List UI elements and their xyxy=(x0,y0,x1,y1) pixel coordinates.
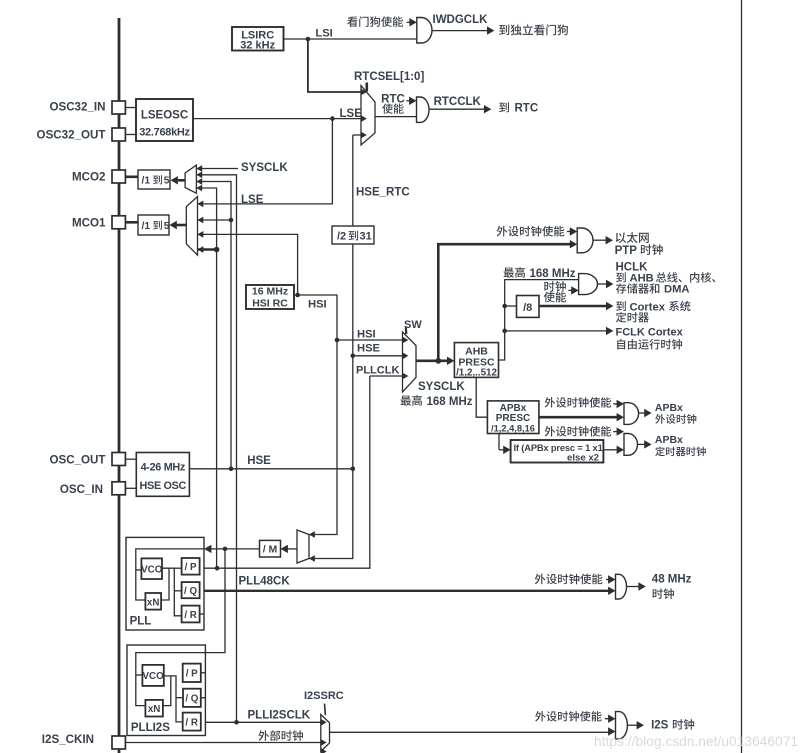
arrow APBx timer output xyxy=(638,443,646,445)
wire PLLI2S internal input xyxy=(136,653,206,706)
svg-text:Cortex: Cortex xyxy=(630,301,666,313)
mux I2SSRC xyxy=(321,715,330,752)
svg-text:I2SSRC: I2SSRC xyxy=(304,690,344,702)
label enable hclk xyxy=(544,292,566,303)
label peripheral clock enable I2S xyxy=(535,711,602,721)
wire HSE down to PLLSRC mux xyxy=(309,469,353,559)
arrow SW in PLLCLK xyxy=(403,373,409,380)
svg-text:PLLI2S: PLLI2S xyxy=(131,722,170,734)
node HSI junction at SW line xyxy=(335,338,340,343)
svg-text:LSEOSC: LSEOSC xyxy=(141,109,188,121)
arrow RTC enable xyxy=(406,100,410,102)
multiplier box PLLI2S xN xyxy=(145,700,163,717)
svg-text:/1,2,..512: /1,2,..512 xyxy=(456,368,497,379)
vco box PLL VCO xyxy=(141,558,162,579)
label to RTC xyxy=(499,102,509,112)
wire PLL internal VCO stub xyxy=(136,569,142,571)
multiplier box PLL xN xyxy=(145,593,161,610)
svg-text:RTC: RTC xyxy=(515,103,539,115)
label watchdog enable xyxy=(347,16,403,27)
and-gate IWDG enable xyxy=(417,18,432,44)
arrow HCLK enable xyxy=(568,289,572,291)
node LSI junction xyxy=(306,37,311,42)
node /M output junction xyxy=(223,547,228,552)
wire main vertical bus xyxy=(118,18,121,753)
pll outer box PLLI2S xyxy=(127,645,205,736)
wire LSI down to RTCSEL mux xyxy=(308,39,361,92)
svg-text:PLL: PLL xyxy=(130,616,152,628)
divider box PLL /P xyxy=(182,558,200,575)
wire PLLCLK into SW mux xyxy=(370,375,403,377)
node MCO1 HSE junction xyxy=(229,218,234,223)
svg-text:VCO: VCO xyxy=(141,565,163,576)
wire PLL internal feedback xyxy=(161,568,169,600)
svg-text:MCO1: MCO1 xyxy=(72,217,106,230)
svg-text:PLL48CK: PLL48CK xyxy=(239,576,291,588)
svg-text:xN: xN xyxy=(147,597,160,608)
svg-text:I2S_CKIN: I2S_CKIN xyxy=(42,733,94,746)
wire MCO1 input2 HSE xyxy=(198,219,232,221)
svg-text:/ P: / P xyxy=(186,669,198,680)
node HSE junction at SW vertical xyxy=(351,467,356,472)
wire OSC_OUT stub xyxy=(125,458,136,460)
vco box PLLI2S VCO xyxy=(142,665,163,686)
svg-text:/ R: / R xyxy=(185,717,198,728)
wire PLLI2S internal VCO out xyxy=(164,676,183,722)
arrow MCO2 mux output to divider xyxy=(177,179,185,182)
label ethernet xyxy=(616,232,649,243)
wire SYSCLK up to PTP gate bold xyxy=(438,244,572,361)
svg-text:APBx: APBx xyxy=(655,402,683,414)
selector tick I2SSRC xyxy=(324,704,327,716)
wire HSI from HSI RC box xyxy=(294,295,337,535)
divider box PLL /Q xyxy=(182,582,200,598)
label to AHB bus core xyxy=(616,272,626,282)
pll outer box PLL xyxy=(126,537,204,630)
arrow MCO2 in4 xyxy=(196,185,202,192)
wire OSC_IN stub xyxy=(125,487,136,489)
svg-text:/ Q: / Q xyxy=(185,694,198,705)
arrow MCO1 in1 xyxy=(198,201,204,208)
wire PLLI2S internal VCO stub xyxy=(136,674,143,676)
label to cortex system xyxy=(616,301,626,311)
svg-text:/2: /2 xyxy=(337,231,346,243)
mux RTCSEL xyxy=(361,86,375,145)
svg-text:LSE: LSE xyxy=(340,108,363,120)
wire MCO1 input4 PLLCLK bold xyxy=(198,248,217,251)
node HCLK junction /8 xyxy=(502,304,507,309)
svg-text:HSE: HSE xyxy=(247,455,271,467)
svg-text:5: 5 xyxy=(164,221,170,232)
node PLLCLK junction xyxy=(215,566,220,571)
wire APBx PRESC down to if-box xyxy=(498,434,500,450)
svg-text:/ M: / M xyxy=(263,544,278,556)
node HSI RC output junction xyxy=(295,293,300,298)
label APBx peripheral clock xyxy=(655,414,696,424)
label 48M clock xyxy=(653,588,674,599)
svg-text:OSC_OUT: OSC_OUT xyxy=(49,453,105,466)
arrow SYSCLK into AHB PRESC xyxy=(448,359,449,362)
mux PLLSRC xyxy=(297,530,309,563)
arrow I2SSRC in ext clock xyxy=(321,739,327,746)
label max 168MHz xyxy=(401,395,423,406)
wire MCO2 input3 from HSE vertical xyxy=(196,182,231,469)
divider box PLL /R xyxy=(182,606,200,623)
svg-text:AHB: AHB xyxy=(630,273,654,285)
svg-text:OSC32_OUT: OSC32_OUT xyxy=(37,129,106,142)
prescaler box APBx PRESC xyxy=(487,401,539,434)
wire /M branch down to PLLI2S xyxy=(136,549,225,672)
arrow PTP output xyxy=(593,239,607,241)
svg-text:OSC32_IN: OSC32_IN xyxy=(49,101,105,114)
node HCLK junction FCLK xyxy=(502,329,507,334)
wire OSC32_IN stub xyxy=(125,107,136,109)
selector tick RTCSEL xyxy=(365,83,368,92)
condition box APBx presc xyxy=(511,440,604,463)
svg-text:16 MHz: 16 MHz xyxy=(252,286,288,298)
oscillator box LSIRC 32kHz xyxy=(232,27,284,51)
divider box /1to5 MCO1 xyxy=(138,215,169,235)
arrow /8 output to Cortex timer bold xyxy=(539,305,607,308)
label memory and DMA xyxy=(616,283,660,293)
arrow APBx PRESC output to gate bold xyxy=(539,416,618,419)
arrow HCLK output xyxy=(598,283,608,285)
wire HSE from HSE OSC xyxy=(189,468,352,470)
divider box PLLI2S /Q xyxy=(183,689,201,707)
wire MCO1 stub bold xyxy=(125,221,138,224)
node HSE junction at SW line xyxy=(351,354,356,359)
wire PLLCLK vertical xyxy=(217,376,370,568)
node HSE junction at MCO vertical xyxy=(229,467,234,472)
svg-text:168 MHz: 168 MHz xyxy=(427,396,473,408)
pin OSC32_IN xyxy=(112,101,125,114)
arrow RTCSEL in HSE_RTC xyxy=(361,132,367,139)
arrow SW in HSI xyxy=(403,337,409,344)
wire HSE_RTC vertical xyxy=(352,135,354,469)
svg-text:RTCSEL[1:0]: RTCSEL[1:0] xyxy=(354,71,424,83)
label APBx timer clock xyxy=(655,447,706,457)
svg-text:4-26 MHz: 4-26 MHz xyxy=(141,462,186,474)
svg-text:/ P: / P xyxy=(185,562,197,573)
arrow APBx enable 2 xyxy=(613,431,617,433)
wire LSE from LSEOSC to RTCSEL mux xyxy=(193,118,361,120)
svg-text:/1,2,4,8,16: /1,2,4,8,16 xyxy=(491,423,535,433)
svg-text:SYSCLK: SYSCLK xyxy=(241,162,288,174)
node LSE junction xyxy=(330,116,335,121)
svg-text:/1: /1 xyxy=(142,176,151,187)
node PLLI2SCLK junction xyxy=(234,720,239,725)
node SYSCLK bold junction xyxy=(435,358,441,364)
svg-text:PLLCLK: PLLCLK xyxy=(356,364,399,376)
wire HSE into SW mux xyxy=(353,355,403,357)
wire MCO2 input4 from PLL vertical xyxy=(196,188,216,568)
wire PLLI2S /P stub2 xyxy=(201,672,206,674)
label peripheral clock enable 48M xyxy=(535,574,603,585)
mux MCO1 xyxy=(186,197,197,256)
arrow MCO1 in3 xyxy=(198,231,204,238)
label peripheral clock enable apb1 xyxy=(545,397,612,407)
label peripheral clock enable PTP xyxy=(497,226,565,237)
svg-text:else x2: else x2 xyxy=(567,453,599,464)
wire HSI into SW mux xyxy=(337,339,403,341)
divider box PLLI2S /R xyxy=(183,713,201,731)
arrow MCO1 mux output to divider xyxy=(176,224,187,227)
and-gate HCLK enable xyxy=(579,274,598,295)
wire PLLI2S /Q stub2 xyxy=(201,697,206,699)
arrow APBx enable 1 xyxy=(613,403,617,405)
wire PLL internal /Q stub xyxy=(174,590,181,592)
svg-text:IWDGCLK: IWDGCLK xyxy=(433,14,489,26)
wire I2S mux output to I2S gate xyxy=(330,731,610,733)
pin OSC_OUT xyxy=(112,453,125,466)
arrow into if-box xyxy=(499,449,504,451)
and-gate 48MHz enable xyxy=(616,574,627,599)
arrow PLLSRC mux to /M divider xyxy=(287,548,297,550)
arrow FCLK Cortex xyxy=(505,330,607,332)
wire I2S external clock xyxy=(125,742,320,744)
wire AHB PRESC output up to HCLK gate xyxy=(499,280,579,360)
wire MCO2 stub bold xyxy=(125,176,138,179)
svg-text:LSE: LSE xyxy=(241,194,264,206)
arrow PLLSRC in HSE xyxy=(309,555,315,562)
and-gate APBx timer enable xyxy=(624,434,637,456)
and-gate APBx peripheral enable xyxy=(624,403,639,425)
svg-text:APBx: APBx xyxy=(655,434,683,446)
wire PLL /R stub xyxy=(200,613,204,615)
svg-text:RTC: RTC xyxy=(381,93,405,105)
oscillator box LSEOSC xyxy=(136,99,193,141)
arrow APBx periph output xyxy=(639,412,646,414)
arrow I2S enable xyxy=(605,718,609,720)
svg-text:HSI: HSI xyxy=(357,328,376,340)
arrow MCO2 in2 xyxy=(196,171,202,178)
arrow MCO1 in4 xyxy=(198,246,204,253)
divider box /2to31 xyxy=(332,226,374,244)
svg-text:PLLI2SCLK: PLLI2SCLK xyxy=(248,710,311,722)
arrow I2S clock into gate xyxy=(608,731,609,733)
pin MCO1 xyxy=(112,216,125,229)
arrow RTCSEL in LSI xyxy=(361,89,367,96)
svg-text:SW: SW xyxy=(404,319,422,331)
and-gate RTC enable xyxy=(417,97,430,122)
svg-text:LSI: LSI xyxy=(315,27,332,39)
and-gate I2S enable xyxy=(616,712,628,739)
selector tick SW xyxy=(405,328,408,335)
wire PLLI2S internal feedback xyxy=(163,676,171,706)
wire PLLI2S /Q stub xyxy=(176,697,183,699)
divider box /8 xyxy=(517,296,540,318)
node MCO1 PLLCLK junction bold xyxy=(214,247,220,253)
arrow I2SSRC third input xyxy=(321,748,327,753)
arrow /M output into PLL box xyxy=(210,548,226,550)
arrow I2S output xyxy=(627,724,637,726)
pin OSC_IN xyxy=(112,482,125,495)
arrow SYSCLK into PTP gate xyxy=(569,243,572,246)
wire SYSCLK output of SW mux bold xyxy=(416,359,450,362)
svg-text:5: 5 xyxy=(164,176,170,187)
wire HSE_RTC into RTCSEL mux xyxy=(353,134,361,136)
svg-text:PTP: PTP xyxy=(615,245,638,257)
wire PLL internal input xyxy=(136,549,204,600)
svg-text:RTCCLK: RTCCLK xyxy=(434,96,482,108)
svg-text:HSE_RTC: HSE_RTC xyxy=(356,187,410,199)
label to independent watchdog xyxy=(499,24,568,35)
wire RTCSEL output to RTC gate xyxy=(375,116,417,118)
label clock hclk xyxy=(544,281,565,292)
wire LSE down to MCO1 mux input xyxy=(198,119,333,204)
wire PLLI2SCLK from PLLI2S /R xyxy=(201,721,321,723)
svg-text:OSC_IN: OSC_IN xyxy=(60,483,103,496)
svg-text:FCLK Cortex: FCLK Cortex xyxy=(616,326,684,338)
wire AHB PRESC down to APBx PRESC xyxy=(476,377,487,417)
svg-text:32.768kHz: 32.768kHz xyxy=(139,126,190,138)
mux MCO2 xyxy=(185,165,196,193)
wire LSI from LSIRC to IWDG gate xyxy=(284,38,417,40)
wire MCO2 input2 from PLLI2S vertical xyxy=(196,175,236,723)
svg-text:If (APBx presc = 1 x1: If (APBx presc = 1 x1 xyxy=(514,443,603,453)
wire PLL internal VCO out xyxy=(162,568,182,616)
label ext clock xyxy=(258,730,303,741)
arrow SW in HSE xyxy=(403,352,409,359)
svg-text:SYSCLK: SYSCLK xyxy=(418,381,465,393)
wire PLL48CK bold from PLL /Q xyxy=(200,590,610,592)
and-gate PTP ethernet enable xyxy=(577,228,593,253)
wire into /8 divider xyxy=(505,305,517,307)
arrow MCO2 in1 xyxy=(196,165,202,172)
wire SYSCLK stub to MCO2 mux xyxy=(196,168,238,170)
arrow if-box output to gate xyxy=(603,449,617,451)
prescaler box AHB PRESC xyxy=(454,343,498,378)
label timer xyxy=(616,312,649,322)
svg-text:HSI: HSI xyxy=(308,299,327,311)
svg-text:/ R: / R xyxy=(184,610,197,621)
mux SW system clock xyxy=(403,332,417,392)
arrow PLL48CK into 48MHz gate xyxy=(608,590,609,592)
svg-text:HCLK: HCLK xyxy=(616,261,649,273)
label free running clock xyxy=(617,339,682,349)
wire MCO1 input3 HSI xyxy=(198,234,298,295)
svg-text:MCO2: MCO2 xyxy=(72,171,106,184)
svg-text:VCO: VCO xyxy=(142,671,164,682)
arrow 48MHz output xyxy=(627,586,640,588)
arrow 48MHz enable xyxy=(606,579,609,581)
svg-text:I2S: I2S xyxy=(651,720,669,732)
svg-text:/1: /1 xyxy=(142,221,151,232)
arrow PLLSRC in HSI xyxy=(309,531,315,538)
pin MCO2 xyxy=(112,170,125,183)
arrow RTCSEL in LSE xyxy=(361,115,367,122)
arrow MCO2 in3 xyxy=(196,178,202,185)
arrow IWDGCLK output xyxy=(432,30,488,32)
svg-text:32 kHz: 32 kHz xyxy=(240,40,275,52)
svg-text:DMA: DMA xyxy=(664,284,689,296)
label peripheral clock enable apb2 xyxy=(545,426,612,436)
svg-text:31: 31 xyxy=(360,231,372,243)
arrow I2SSRC in PLLI2SCLK xyxy=(321,719,327,726)
svg-text:/ Q: / Q xyxy=(184,586,197,597)
label RTC enable xyxy=(382,103,403,113)
label max 168MHz hclk xyxy=(504,267,526,278)
wire /M output to PLL bold xyxy=(225,548,260,550)
divider box PLLI2S /P xyxy=(183,664,201,682)
svg-text:HSI RC: HSI RC xyxy=(252,298,288,310)
arrow PTP enable xyxy=(567,231,571,233)
wire right border xyxy=(741,0,743,753)
svg-text:/8: /8 xyxy=(523,302,532,314)
svg-text:PRESC: PRESC xyxy=(496,413,530,424)
arrow MCO1 in2 xyxy=(198,217,204,224)
svg-text:168 MHz: 168 MHz xyxy=(530,268,576,280)
wire PLLCLK from PLL /P xyxy=(200,567,218,569)
oscillator box 16MHz HSI RC xyxy=(246,285,294,309)
wire PLL internal /P stub xyxy=(174,567,181,569)
svg-text:xN: xN xyxy=(148,704,161,715)
pin I2S_CKIN xyxy=(112,736,125,749)
arrow watchdog enable xyxy=(407,21,411,23)
wire OSC32_OUT stub xyxy=(125,134,136,136)
pin OSC32_OUT xyxy=(112,128,125,141)
divider box /1to5 MCO2 xyxy=(138,170,170,189)
svg-text:HSE: HSE xyxy=(357,342,381,354)
svg-text:HSE OSC: HSE OSC xyxy=(140,480,187,492)
arrow RTCCLK output xyxy=(429,108,485,110)
svg-text:48 MHz: 48 MHz xyxy=(652,573,692,585)
svg-text:https:/​/blog.csdn.net/u013646: https:/​/blog.csdn.net/u013646071 xyxy=(594,734,798,749)
divider box /M xyxy=(260,540,281,557)
oscillator box HSE OSC xyxy=(136,453,189,497)
